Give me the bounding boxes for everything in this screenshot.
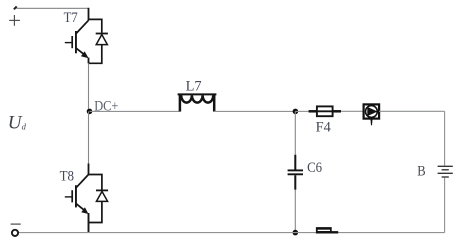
current sensor (boxed arrow transducer): [364, 104, 380, 125]
wire node A to F4: [295, 110, 309, 112]
wire L7 to node A: [214, 110, 295, 112]
wire F4 to current sensor: [341, 110, 364, 112]
minus polarity mark: [11, 223, 21, 225]
negative terminal circle: [12, 230, 18, 236]
wire node A down to C6: [294, 111, 296, 155]
wire DC+ node to L7: [90, 110, 180, 112]
transistor T7 (IGBT): [65, 8, 89, 64]
capacitor C6: [288, 155, 303, 190]
wire C6 to negative rail node: [294, 190, 296, 233]
transistor T8 (IGBT): [65, 164, 89, 233]
fuse on negative rail (unlabeled): [316, 227, 338, 233]
svg-text:F4: F4: [316, 120, 332, 136]
fuse F4: [309, 106, 341, 116]
svg-text:B: B: [417, 163, 425, 179]
wire T7 emitter to DC+ node: [88, 63, 90, 111]
negative rail wire: [18, 232, 444, 234]
node DC+ (junction dot): [87, 109, 93, 115]
svg-text:T8: T8: [60, 169, 74, 185]
wire battery bottom to negative rail corner: [444, 178, 446, 233]
wire battery top drop: [444, 111, 446, 165]
plus polarity mark: [9, 15, 20, 26]
svg-text:T7: T7: [64, 10, 79, 26]
battery B: [438, 166, 453, 177]
node on negative rail (junction dot): [293, 230, 299, 236]
wire top positive rail: [17, 7, 89, 9]
svg-text:d: d: [22, 122, 27, 132]
node A (junction dot, DC bus to C6): [293, 109, 299, 115]
wire DC+ node to T8 collector: [88, 111, 90, 164]
inductor L7: [178, 94, 217, 111]
svg-text:L7: L7: [186, 79, 202, 95]
svg-text:C6: C6: [307, 160, 322, 176]
svg-text:U: U: [8, 113, 23, 134]
diode D7 (anti-parallel with T7): [89, 19, 108, 63]
positive terminal hook: [14, 7, 17, 10]
label Ud (source voltage): [8, 113, 27, 134]
diode D8 (anti-parallel with T8): [89, 175, 109, 223]
svg-text:DC+: DC+: [94, 98, 118, 114]
wire current sensor to battery top corner: [379, 110, 445, 112]
